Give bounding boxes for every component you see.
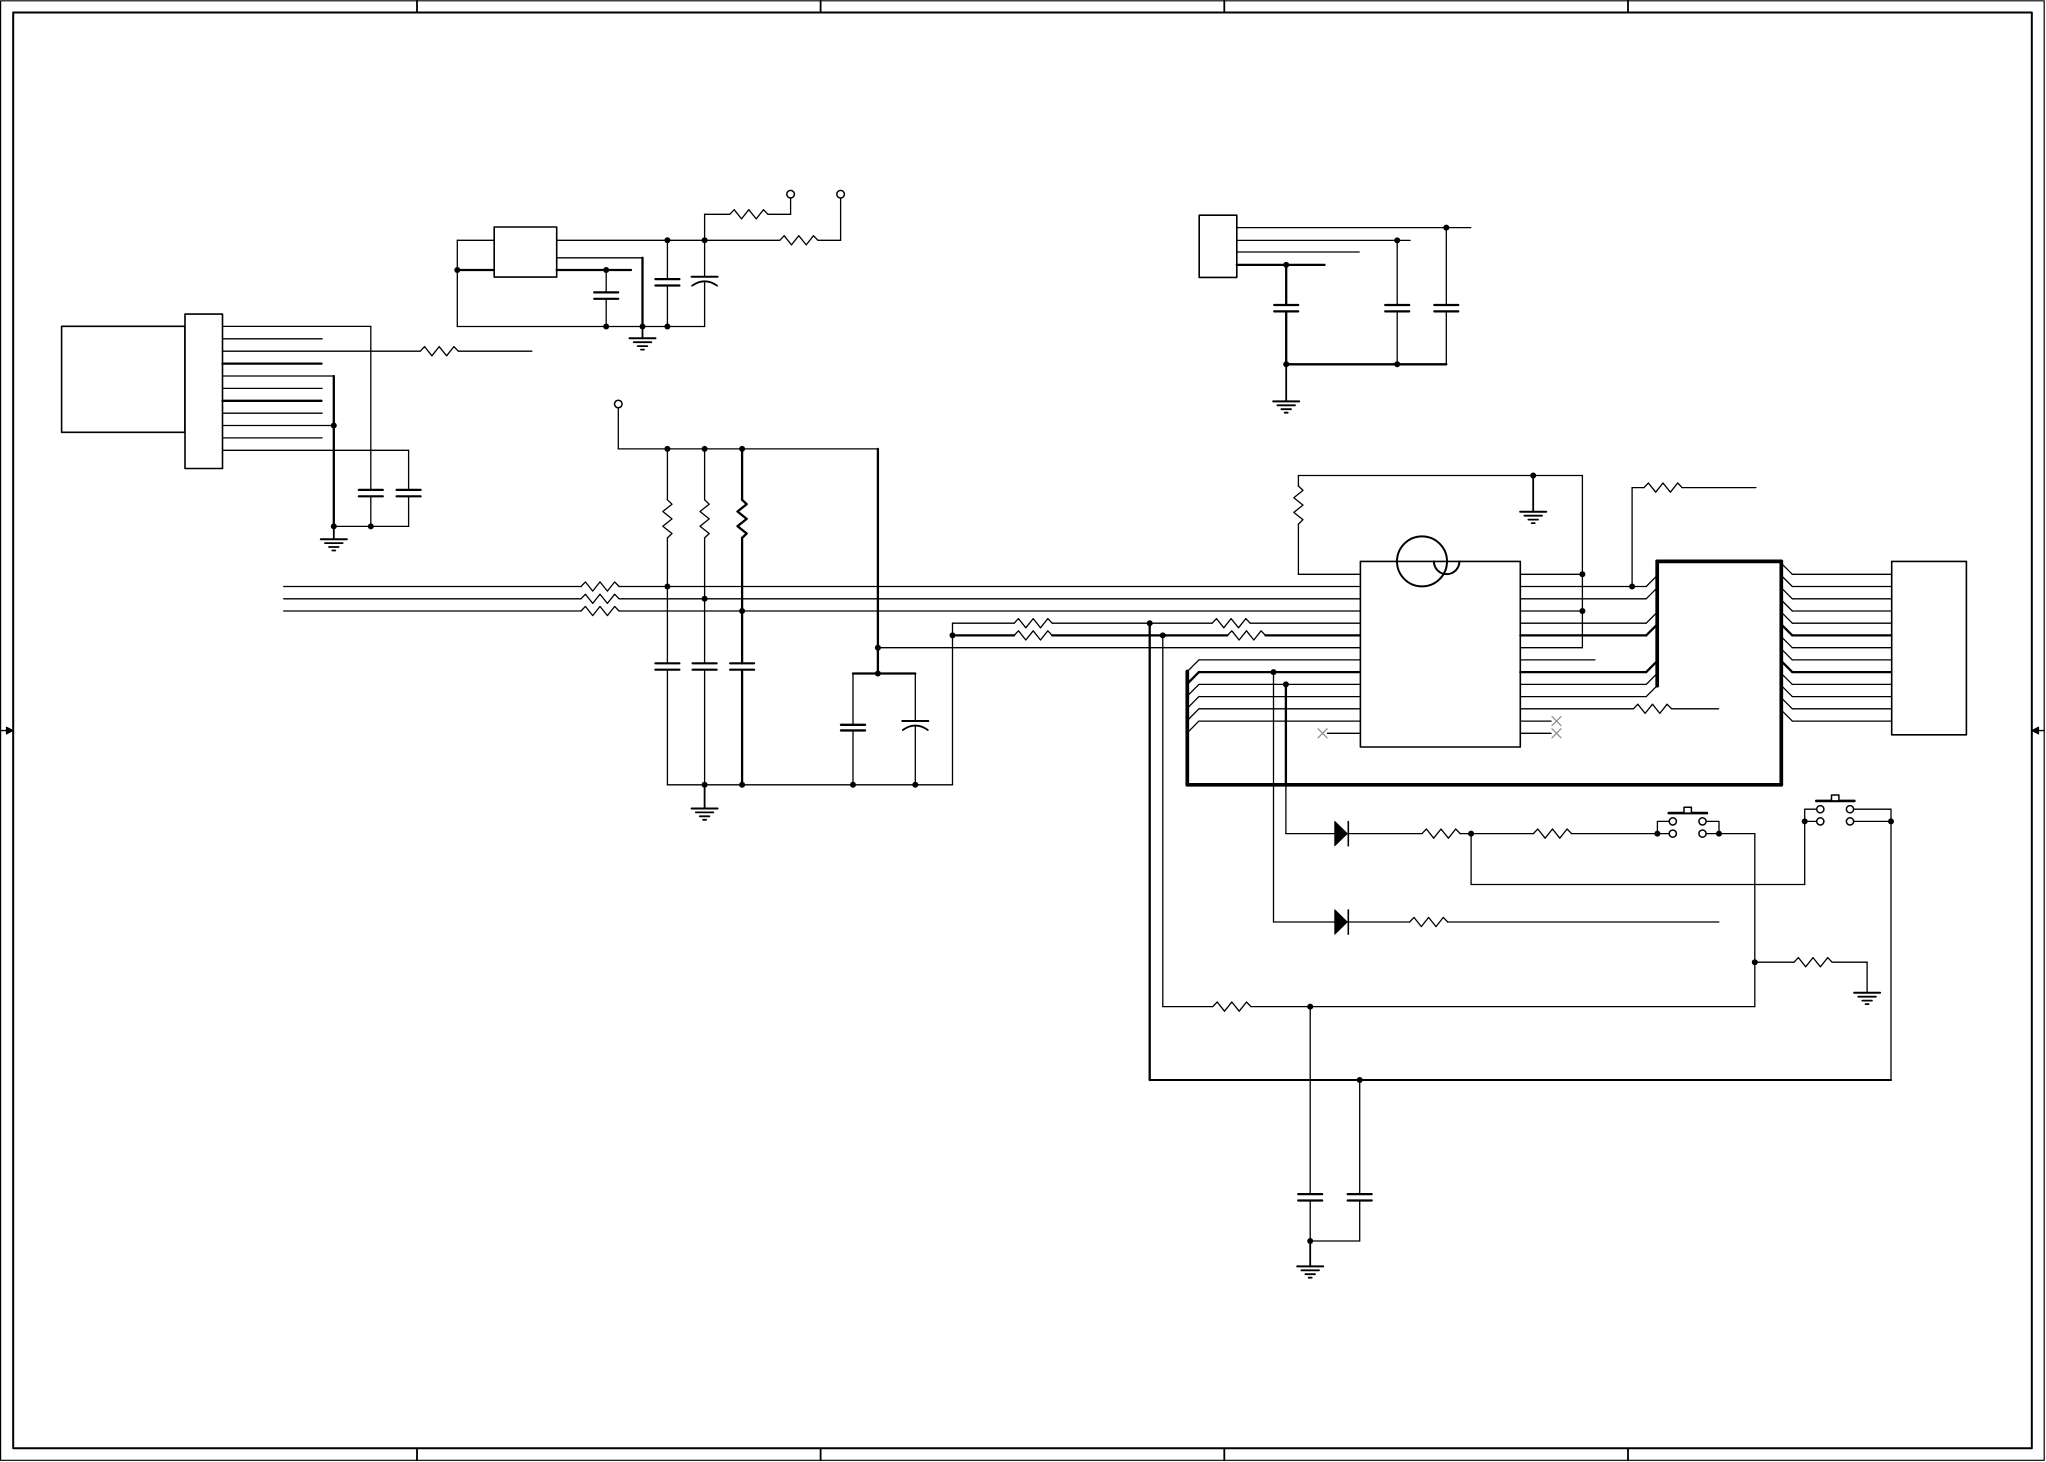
node junction C6 tap	[1283, 262, 1289, 268]
bus entry mid k8	[1646, 661, 1657, 672]
wire C5 top lead	[408, 450, 410, 490]
capacitor C5	[397, 490, 421, 496]
wire U3 left pin row 7	[1199, 659, 1361, 661]
wire regulator input mid (thick)	[457, 269, 494, 271]
wire U3 left pin row 13 stub	[1328, 732, 1361, 734]
capacitor C14	[1298, 1194, 1322, 1200]
wire R19 to SW1	[1572, 833, 1670, 835]
node junction R4-bus1	[664, 584, 670, 590]
wire filter branch	[878, 647, 953, 649]
node junction D2 feed	[1271, 669, 1277, 675]
wire U3 left pin row 0	[1298, 573, 1360, 575]
capacitor C8 top lead	[1445, 228, 1447, 305]
capacitor C1 bottom lead	[605, 299, 607, 327]
bus entry mid k4	[1646, 612, 1657, 623]
bus entry left k10	[1187, 697, 1199, 709]
wire SW1 right bracket	[1706, 821, 1719, 833]
resistor R5 (vertical)	[700, 500, 709, 538]
node rail junction R6	[739, 446, 745, 452]
node junction pin9 on drop	[331, 423, 337, 429]
wire D1 cathode	[1348, 833, 1422, 835]
wire U3 left pin row 10	[1199, 696, 1361, 698]
wire C4 top lead	[370, 326, 372, 490]
wire loop right vertical	[1581, 476, 1583, 648]
bus bottom horizontal	[1187, 783, 1781, 787]
node rail junction R5	[702, 446, 708, 452]
wire U3 right row5 (thick)	[1520, 634, 1646, 636]
bus exit right k5	[1781, 624, 1792, 635]
wire U3 left pin row 11	[1199, 708, 1361, 710]
wire J1 pin6 stub	[223, 387, 323, 389]
wire R15 output stub	[1672, 708, 1719, 710]
wire J1 pin5	[223, 375, 334, 377]
node rail junction R4	[664, 446, 670, 452]
capacitor C13 (polarized)	[902, 721, 928, 730]
bus exit right k0	[1781, 563, 1792, 574]
bus entry left k9	[1187, 684, 1199, 696]
resistor R6 top lead (thick)	[741, 449, 743, 500]
wire thick drop to filter	[877, 449, 879, 674]
wire R20 lead	[1755, 961, 1794, 963]
resistor R21	[1213, 1002, 1251, 1011]
wire sense line lead	[1163, 1006, 1213, 1008]
capacitor C10 bottom lead	[704, 670, 706, 785]
capacitor C5 bottom lead	[408, 496, 410, 526]
wire R2 to test point	[818, 198, 841, 240]
wire R4 to C9	[666, 587, 668, 664]
wire to resistor R1	[705, 214, 730, 240]
resistor R4 (vertical)	[663, 500, 672, 538]
ground GND3	[692, 785, 718, 820]
resistor R16 lead left	[1632, 487, 1644, 489]
wire U3 right row9	[1520, 683, 1646, 685]
wire k5 line segment b (thick)	[1052, 634, 1227, 636]
resistor R7 (series bus1)	[581, 582, 619, 591]
wire k5 sense riser	[1162, 635, 1164, 1006]
bus exit right k10	[1781, 686, 1792, 697]
capacitor C7	[1385, 305, 1409, 311]
resistor R6 bottom lead (thick)	[741, 538, 743, 611]
capacitor C15 top lead	[1359, 1080, 1361, 1194]
wire SW2 right out	[1854, 820, 1891, 822]
wire J2 pin row 3	[1792, 610, 1891, 612]
wire D2 feed drop	[1273, 672, 1275, 922]
node junction caps gnd	[1307, 1238, 1313, 1244]
bus left vertical	[1185, 672, 1189, 785]
regulator U1	[494, 227, 557, 277]
bus exit right k12	[1781, 710, 1792, 721]
bus entry mid k9	[1646, 673, 1657, 684]
node junction C15 tap	[1357, 1077, 1363, 1083]
wire U2 pin3 stub	[1237, 251, 1359, 253]
wire R16 output stub	[1682, 487, 1756, 489]
resistor R4 top lead	[666, 449, 668, 500]
wire regulator ground rail	[457, 326, 704, 328]
wire J2 pin row 6	[1792, 647, 1891, 649]
capacitor C3 (polarized)	[692, 277, 718, 286]
wire R3 output stub	[458, 350, 532, 352]
frame top division tick 4	[1627, 1, 1629, 13]
bus entry mid k10	[1646, 686, 1657, 697]
capacitor C7 top lead	[1396, 240, 1398, 305]
bus entry mid k5	[1646, 624, 1657, 635]
test point TP3	[615, 400, 623, 408]
capacitor C11	[730, 663, 754, 669]
connector J1 plug body	[62, 326, 185, 432]
wire k4 line segment b	[1052, 622, 1212, 624]
wire R6 to C11 (thick)	[741, 611, 743, 663]
test point TP2	[837, 190, 845, 198]
wire D1 anode	[1286, 833, 1335, 835]
wire U2 pin4 (thick)	[1237, 264, 1325, 266]
bus exit right k2	[1781, 588, 1792, 599]
wire SW2 riser	[1804, 821, 1806, 884]
wire node A drop	[1470, 834, 1472, 885]
frame bottom division tick 1	[416, 1448, 418, 1460]
capacitor C12	[841, 725, 865, 731]
resistor R5 bottom lead	[704, 538, 706, 599]
resistor R12	[1014, 631, 1052, 640]
node junction SW1 left	[1654, 831, 1660, 837]
resistor R14 bottom lead	[1297, 524, 1299, 574]
resistor R1	[730, 210, 768, 219]
frame top division tick 3	[1223, 1, 1225, 13]
switch SW2	[1816, 795, 1854, 825]
bus mid-left vertical	[1655, 561, 1659, 685]
frame bottom division tick 2	[820, 1448, 822, 1460]
wire D1 feed drop lower	[1285, 785, 1287, 834]
wire ground drop vertical (thick)	[641, 258, 643, 327]
node rail junction C1	[603, 324, 609, 330]
wire J1 pin8 stub	[223, 412, 323, 414]
wire J1 pin7 stub (thick)	[223, 400, 322, 402]
capacitor C4 bottom lead	[370, 496, 372, 526]
resistor R15	[1633, 704, 1671, 713]
wire SW1 right out	[1706, 833, 1755, 835]
capacitor C8 bottom lead	[1445, 312, 1447, 365]
bus right vertical	[1779, 561, 1783, 784]
node junction rail C4	[368, 523, 374, 529]
capacitor C14 top lead	[1309, 1007, 1311, 1195]
wire U3 right row13 stub	[1520, 732, 1551, 734]
frame bottom division tick 4	[1627, 1448, 1629, 1460]
resistor R10	[1014, 619, 1052, 628]
wire U3 left pin row 8 (thick)	[1199, 671, 1361, 673]
capacitor C7 bottom lead	[1396, 312, 1398, 365]
resistor R9 (series bus3)	[581, 606, 619, 615]
wire k5 line segment a (thick)	[953, 634, 1015, 636]
wire SW2 left in	[1805, 820, 1817, 822]
ground GND1	[630, 327, 656, 350]
capacitor C13 bottom lead	[914, 726, 916, 785]
capacitor C6	[1274, 305, 1298, 311]
bus exit right k6	[1781, 637, 1792, 648]
wire node A to SW2	[1471, 884, 1805, 886]
wire filter top bar (thick)	[853, 672, 915, 674]
resistor R14 (vertical)	[1294, 486, 1303, 524]
resistor R16	[1644, 483, 1682, 492]
wire R16 drop to row1	[1631, 488, 1633, 587]
node junction A	[1468, 831, 1474, 837]
wire U3 right row2	[1520, 598, 1646, 600]
wire k4 line segment a	[953, 622, 1015, 624]
wire U2 ground rail (thick)	[1286, 363, 1446, 365]
wire J2 pin row 8 (thick)	[1792, 671, 1891, 673]
no-connect mark left	[1318, 729, 1327, 738]
bus entry left k8	[1187, 672, 1199, 684]
capacitor C9	[655, 663, 679, 669]
U3 orientation circle large	[1397, 536, 1447, 586]
connector J1 header	[185, 314, 223, 468]
node rail junction C6	[1283, 361, 1289, 367]
node rail junction gnd	[640, 324, 646, 330]
frame left mid arrow	[1, 727, 14, 734]
node rail junction C12	[850, 782, 856, 788]
capacitor C12 top lead	[852, 674, 854, 725]
wire U3 right row7 stub	[1520, 659, 1595, 661]
bus exit right k4	[1781, 612, 1792, 623]
node junction loop row3	[1579, 608, 1585, 614]
node output junction A	[664, 237, 670, 243]
wire bus line 2	[284, 598, 1361, 600]
bus entry mid k2	[1646, 588, 1657, 599]
bus entry mid k1	[1646, 576, 1657, 587]
capacitor C15 bottom lead	[1310, 1201, 1360, 1241]
resistor R4 bottom lead	[666, 538, 668, 587]
ground GND4	[1520, 476, 1546, 524]
wire U2 pin2	[1237, 239, 1410, 241]
wire bus line 1	[284, 586, 1361, 588]
frame top division tick 2	[820, 1, 822, 13]
bus exit right k11	[1781, 698, 1792, 709]
node output junction B	[702, 237, 708, 243]
node junction D1 feed	[1283, 681, 1289, 687]
bus exit right k8	[1781, 661, 1792, 672]
wire loop left riser (thick)	[1149, 623, 1151, 1080]
wire U3 right row4	[1520, 622, 1646, 624]
capacitor C15	[1348, 1194, 1372, 1200]
connector J2	[1892, 561, 1967, 734]
wire SW1 left bracket	[1657, 821, 1669, 833]
wire rail riser	[952, 623, 954, 785]
wire bottom loop	[1150, 1079, 1891, 1081]
capacitor C3 bottom lead	[704, 282, 706, 327]
wire regulator input rail	[456, 240, 458, 326]
wire U1 pin3 stub (thick)	[557, 269, 631, 271]
wire J2 pin row 1	[1792, 586, 1891, 588]
bus exit right k1	[1781, 576, 1792, 587]
wire J1 pin11	[223, 449, 409, 451]
wire node A	[1460, 833, 1533, 835]
wire to resistor R2	[705, 239, 780, 241]
capacitor C11 bottom lead (thick)	[741, 670, 743, 785]
wire U3 right row1	[1520, 586, 1646, 588]
wire J2 pin row 12	[1792, 720, 1891, 722]
node junction on input rail	[454, 267, 460, 273]
capacitor C3 top lead	[704, 240, 706, 276]
wire SW1 drop	[1754, 834, 1756, 1007]
capacitor C13 top lead	[914, 674, 916, 722]
wire regulator input top	[457, 239, 494, 241]
no-connect mark right A	[1552, 717, 1561, 726]
capacitor C14 bottom lead	[1309, 1201, 1311, 1241]
resistor R11	[1212, 619, 1250, 628]
node junction riser k5	[950, 632, 956, 638]
capacitor C2 top lead	[666, 240, 668, 279]
node junction pulldown	[1752, 959, 1758, 965]
wire J2 pin row 9	[1792, 683, 1891, 685]
bus entry left k7	[1187, 660, 1199, 672]
capacitor C1	[594, 292, 618, 298]
wire J1 pin9	[223, 425, 334, 427]
capacitor C2	[655, 279, 679, 285]
wire J2 pin row 10	[1792, 696, 1891, 698]
node junction R6-bus3	[739, 608, 745, 614]
node junction C14 tap	[1307, 1004, 1313, 1010]
node junction filter bar	[875, 671, 881, 677]
ground GND7	[1273, 364, 1299, 412]
capacitor C8	[1434, 305, 1458, 311]
capacitor C6 top lead (thick)	[1285, 265, 1287, 305]
node junction loop row0	[1579, 571, 1585, 577]
wire SW2 left bracket	[1805, 809, 1817, 821]
bus top horizontal	[1657, 560, 1781, 564]
diode D2	[1335, 910, 1349, 934]
resistor R2	[780, 236, 818, 245]
wire SW2 drop	[1890, 821, 1892, 1080]
wire J2 pin row 4	[1792, 622, 1891, 624]
node junction C7 tap	[1394, 237, 1400, 243]
node junction R5-bus2	[702, 596, 708, 602]
bus entry left k12	[1187, 721, 1199, 733]
wire R17 output	[1448, 921, 1719, 923]
resistor R6 (vertical thick)	[738, 500, 747, 538]
node junction right row1	[1629, 584, 1635, 590]
bus entry left k11	[1187, 709, 1199, 721]
wire loop top	[1298, 475, 1582, 477]
no-connect mark right B	[1552, 729, 1561, 738]
wire k6 line (filter to U3)	[953, 647, 1361, 649]
capacitor C10	[693, 663, 717, 669]
wire J2 pin row 5 (thick)	[1792, 634, 1891, 636]
wire U1 pin2 to ground drop	[557, 257, 643, 259]
U3 orientation half-circle small	[1434, 561, 1460, 574]
ground GND6	[1297, 1241, 1323, 1278]
resistor R13	[1227, 631, 1265, 640]
bus exit right k9	[1781, 673, 1792, 684]
wire TP3 stem	[617, 408, 619, 449]
resistor R17	[1410, 917, 1448, 926]
wire U3 left pin row 12	[1199, 720, 1361, 722]
wire U3 right row10	[1520, 696, 1646, 698]
wire J1 pin1	[223, 325, 371, 327]
wire U1 output top	[557, 239, 705, 241]
wire U2 pin1	[1237, 227, 1471, 229]
wire bus line 3	[284, 610, 1361, 612]
wire J1 pin3	[223, 350, 421, 352]
wire D2 cathode	[1348, 921, 1409, 923]
wire J1 pin10 stub	[223, 437, 323, 439]
wire J1 ground rail	[334, 525, 409, 527]
resistor R20	[1794, 958, 1832, 967]
bus exit right k7	[1781, 649, 1792, 660]
wire U3 right row0	[1520, 573, 1582, 575]
bus exit right k3	[1781, 600, 1792, 611]
capacitor C6 bottom lead (thick)	[1285, 312, 1287, 365]
node rail junction C11	[739, 782, 745, 788]
wire J2 pin row 7	[1792, 659, 1891, 661]
ground GND2	[321, 526, 347, 550]
ground GND5	[1854, 993, 1880, 1004]
wire k4 line segment c	[1250, 622, 1360, 624]
wire D2 anode	[1274, 921, 1335, 923]
wire U3 left pin row 9	[1199, 683, 1361, 685]
node junction SW2 left	[1802, 818, 1808, 824]
wire U3 right row11 lead	[1520, 708, 1633, 710]
wire R1 to test point	[768, 198, 791, 214]
resistor R3	[420, 347, 458, 356]
frame right mid arrow	[2032, 727, 2044, 734]
wire U3 right row8 (thick)	[1520, 671, 1646, 673]
wire J2 pin row 0	[1792, 573, 1891, 575]
node junction filter branch	[875, 645, 881, 651]
node junction k5 drop	[1160, 632, 1166, 638]
resistor R18	[1422, 829, 1460, 838]
wire R20 to ground	[1832, 962, 1867, 993]
test point TP1	[787, 190, 795, 198]
node rail junction C7	[1394, 361, 1400, 367]
node junction SW1 right	[1716, 831, 1722, 837]
wire J1 pin2 stub	[223, 338, 323, 340]
IC U2	[1199, 215, 1237, 277]
node rail junction C2	[664, 324, 670, 330]
capacitor C4	[359, 490, 383, 496]
wire J1 pin4 stub (thick)	[223, 362, 322, 364]
node junction k4 drop	[1147, 620, 1153, 626]
wire pull-up top rail	[618, 448, 878, 450]
diode D1	[1335, 822, 1349, 846]
resistor R14 top lead	[1297, 476, 1299, 487]
node rail junction gnd	[702, 782, 708, 788]
capacitor C2 bottom lead	[666, 286, 668, 327]
resistor R5 top lead	[704, 449, 706, 500]
capacitor C12 bottom lead	[852, 730, 854, 784]
wire J1 shield drop (thick)	[333, 376, 335, 526]
wire U3 right row6	[1520, 647, 1582, 649]
switch SW1	[1669, 807, 1707, 837]
wire U3 right row3	[1520, 610, 1582, 612]
wire SW2 right bracket	[1854, 809, 1891, 821]
wire mid ground rail	[667, 784, 952, 786]
wire U3 right row12 stub	[1520, 720, 1551, 722]
resistor R19	[1533, 829, 1571, 838]
frame top division tick 1	[416, 1, 418, 13]
node junction SW2 right	[1888, 818, 1894, 824]
wire k5 line segment c (thick)	[1266, 634, 1361, 636]
wire J2 pin row 11	[1792, 708, 1891, 710]
wire D1 feed drop (thick)	[1285, 684, 1287, 784]
capacitor C1 top lead	[605, 270, 607, 292]
node junction rail gnd	[331, 523, 337, 529]
capacitor C9 bottom lead	[666, 670, 668, 785]
resistor R8 (series bus2)	[581, 594, 619, 603]
node junction C8 tap	[1443, 225, 1449, 231]
node rail junction C13	[912, 782, 918, 788]
wire J2 pin row 2	[1792, 598, 1891, 600]
wire R5 to C10	[704, 599, 706, 664]
frame bottom division tick 3	[1223, 1448, 1225, 1460]
wire sense line	[1251, 1006, 1755, 1008]
